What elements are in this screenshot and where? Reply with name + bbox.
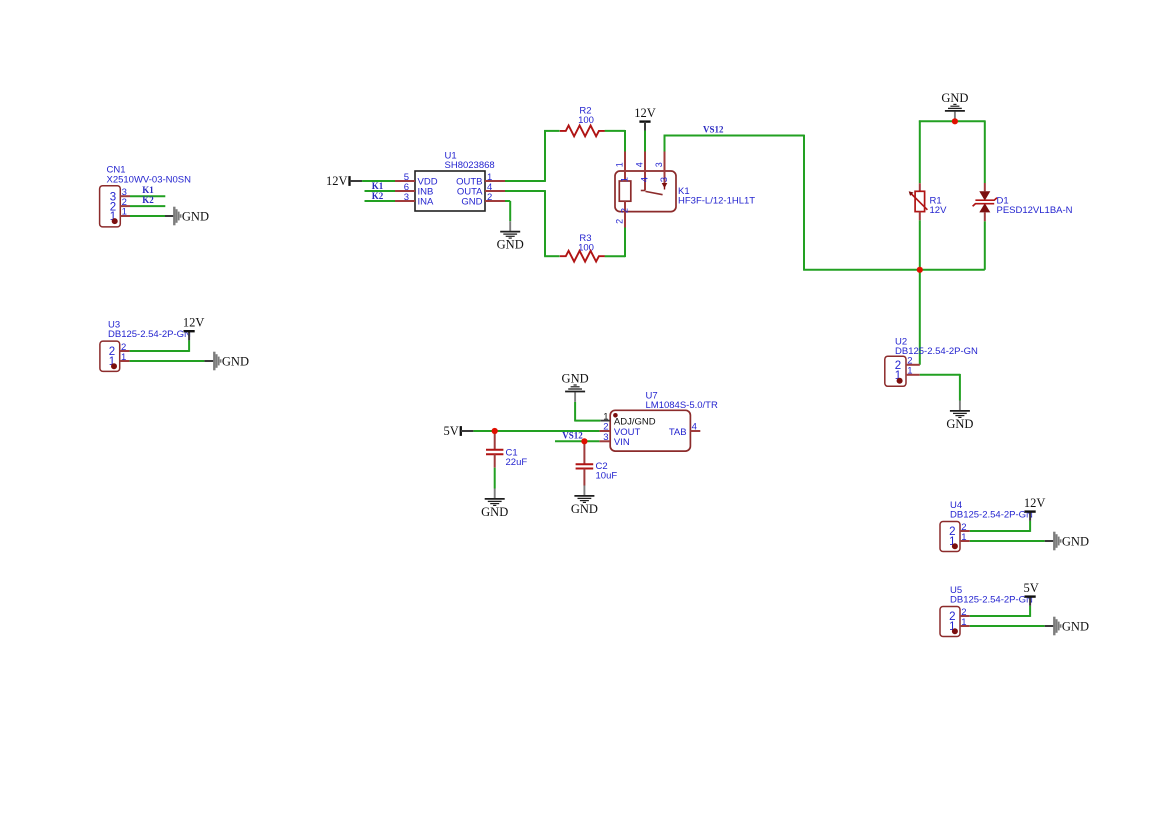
ground GND earth (U7 pin 1) xyxy=(562,371,589,402)
IC U1 pin numbers left xyxy=(404,172,409,203)
svg-text:3: 3 xyxy=(603,432,608,443)
connector U2 reference label xyxy=(895,337,978,358)
connector U4 pin 2 xyxy=(960,530,970,532)
resistor R3 xyxy=(560,251,605,262)
svg-text:3: 3 xyxy=(654,162,664,167)
connector U3 pin 1 xyxy=(120,360,130,362)
relay K1 switch blade xyxy=(645,191,662,194)
junction (5V rail / C1) xyxy=(492,428,498,434)
svg-text:10uF: 10uF xyxy=(596,471,618,482)
IC U1 pin 2 GND xyxy=(485,200,505,202)
connector U4 pin names xyxy=(949,526,955,548)
svg-text:GND: GND xyxy=(562,371,589,385)
regulator U7 pin 3 number xyxy=(603,432,608,443)
connector U2 pin names xyxy=(895,360,901,382)
connector U5 pin numbers xyxy=(961,607,966,628)
svg-text:1: 1 xyxy=(961,617,966,628)
svg-text:2: 2 xyxy=(615,219,625,224)
IC U1 reference label xyxy=(445,150,495,171)
ground GND flag (U3 pin 1) xyxy=(204,352,249,371)
connector CN1 pin 3 xyxy=(120,195,130,197)
regulator U7 pin 3 VIN xyxy=(599,440,610,442)
ground GND flag (U5 pin 1) xyxy=(1045,617,1089,636)
relay K1 pin 1 xyxy=(624,152,626,182)
regulator U7 pin 4 number xyxy=(692,422,697,433)
wire R1 bottom xyxy=(919,220,921,269)
svg-text:DB125-2.54-2P-GN: DB125-2.54-2P-GN xyxy=(950,509,1033,520)
svg-text:12V: 12V xyxy=(634,106,656,120)
regulator U7 pin-1 dot xyxy=(613,413,618,418)
svg-text:INA: INA xyxy=(418,197,435,208)
IC U1 pin 4 OUTA xyxy=(485,190,505,192)
connector U4 pin-1 dot xyxy=(952,543,958,549)
regulator U7 pin 4 name xyxy=(669,427,687,438)
regulator U7 body xyxy=(610,410,690,451)
regulator U7 pin 1 name xyxy=(614,416,656,427)
wire U1 GND pin 2 down xyxy=(505,201,510,221)
net label K1 (U1) xyxy=(372,181,384,191)
svg-text:SH8023868: SH8023868 xyxy=(445,160,495,171)
wire U5 pin 1 to GND xyxy=(970,625,1045,627)
resistor R2 xyxy=(560,125,605,136)
svg-text:1: 1 xyxy=(121,352,126,363)
wire VS12 down to U2 pin 2 xyxy=(919,270,921,365)
regulator U7 pin 3 name xyxy=(614,437,630,448)
connector U5 pin-1 dot xyxy=(952,628,958,634)
ground GND earth (U2 pin 1) xyxy=(946,401,973,431)
svg-text:HF3F-L/12-1HL1T: HF3F-L/12-1HL1T xyxy=(678,195,755,206)
connector U5 reference label xyxy=(950,585,1033,606)
capacitor C2 label xyxy=(596,461,618,482)
wire U7 pin 1 to GND xyxy=(575,402,600,422)
wire K1 from CN1 pin 3 xyxy=(130,195,165,197)
ground GND flag (CN1 pin 1) xyxy=(165,207,209,226)
svg-text:K2: K2 xyxy=(142,195,154,205)
relay K1 pin 3 xyxy=(662,152,668,190)
svg-text:ADJ/GND: ADJ/GND xyxy=(614,416,656,427)
svg-text:GND: GND xyxy=(571,502,598,516)
svg-text:K2: K2 xyxy=(372,191,384,201)
IC U1 pin 1 OUTB xyxy=(485,180,505,182)
svg-text:4: 4 xyxy=(692,422,697,433)
connector U3 body xyxy=(100,341,120,371)
svg-text:100: 100 xyxy=(578,115,594,126)
wire 5V rail xyxy=(473,430,599,432)
resistor R2 label xyxy=(578,106,594,127)
connector U2 pin 2 xyxy=(906,364,920,366)
svg-text:2: 2 xyxy=(619,208,630,213)
net label K2 (U1) xyxy=(372,191,384,201)
power 12V flag (U1 VDD) xyxy=(326,174,362,188)
wire U4 pin 2 to 12V xyxy=(970,521,1030,532)
svg-text:GND: GND xyxy=(222,355,249,369)
power 12V flag (K1 pin 4) xyxy=(634,106,656,131)
power 12V flag (U4) xyxy=(1024,496,1046,521)
capacitor C1 xyxy=(486,431,503,468)
wire 12V to U1 VDD xyxy=(362,180,395,182)
wire R3 to K1 pin 2 xyxy=(605,228,625,258)
connector U3 pin names xyxy=(109,346,115,368)
TVS diode D1 xyxy=(973,183,997,221)
wire U3 pin 1 to GND xyxy=(130,360,205,362)
svg-text:22uF: 22uF xyxy=(506,457,528,468)
connector CN1 reference label xyxy=(107,165,192,186)
relay K1 body xyxy=(615,171,676,212)
net label VS12 (relay) xyxy=(703,124,724,134)
IC U1 pin numbers right xyxy=(487,172,492,203)
svg-text:GND: GND xyxy=(946,417,973,431)
IC U1 pin 6 INB xyxy=(395,190,415,192)
connector U2 pin 1 xyxy=(906,374,920,376)
regulator U7 pin 2 VOUT xyxy=(599,430,610,432)
IC U1 body xyxy=(415,171,485,211)
power 5V flag (U5) xyxy=(1023,581,1038,606)
wire U2 pin 1 to GND xyxy=(920,374,960,401)
wire D1 bottom xyxy=(984,221,986,269)
regulator U7 pin 4 TAB xyxy=(690,430,700,432)
net label VS12 (U7) xyxy=(562,431,583,441)
IC U1 pin 3 INA xyxy=(395,200,415,202)
relay K1 pin 2 xyxy=(624,201,626,227)
connector CN1 pin names xyxy=(110,191,116,223)
svg-text:GND: GND xyxy=(1062,535,1089,549)
wire VS12 from K1 pin 3 xyxy=(664,135,985,270)
svg-text:GND: GND xyxy=(1062,620,1089,634)
svg-text:PESD12VL1BA-N: PESD12VL1BA-N xyxy=(997,205,1073,216)
junction (VS12 / C2) xyxy=(581,438,587,444)
wire K2 from CN1 pin 2 xyxy=(130,205,165,207)
regulator U7 reference label xyxy=(646,390,718,411)
relay K1 reference label xyxy=(678,186,755,207)
svg-text:1: 1 xyxy=(907,366,912,377)
svg-text:VS12: VS12 xyxy=(562,431,583,441)
relay K1 pin names inside xyxy=(619,177,670,213)
varistor R1 xyxy=(909,183,928,220)
svg-text:1: 1 xyxy=(619,177,630,182)
svg-text:DB125-2.54-2P-GN: DB125-2.54-2P-GN xyxy=(950,595,1033,606)
varistor R1 label xyxy=(930,195,948,216)
junction (VS12 / R1 column) xyxy=(917,267,923,273)
power 5V flag (U7 VOUT rail) xyxy=(444,424,474,438)
svg-text:12V: 12V xyxy=(1024,496,1046,510)
connector U3 reference label xyxy=(108,319,191,340)
svg-text:2: 2 xyxy=(487,192,492,203)
IC U1 pin names xyxy=(418,177,484,208)
wire 12V to K1 pin 4 xyxy=(644,131,646,152)
ground GND earth (C2) xyxy=(571,486,598,516)
wire U1 OUTB to R2 xyxy=(505,130,560,182)
relay K1 pin numbers outside xyxy=(615,162,665,224)
svg-text:K1: K1 xyxy=(372,181,384,191)
svg-text:1: 1 xyxy=(603,411,608,422)
svg-text:3: 3 xyxy=(404,192,409,203)
wire top rail xyxy=(919,120,985,183)
junction (top GND rail) xyxy=(952,118,958,124)
connector U5 pin names xyxy=(949,611,955,633)
svg-text:1: 1 xyxy=(961,532,966,543)
svg-text:1: 1 xyxy=(615,162,625,167)
svg-text:GND: GND xyxy=(461,197,482,208)
IC U1 pin 5 VDD xyxy=(395,180,415,182)
svg-text:VS12: VS12 xyxy=(703,124,724,134)
connector U3 pin-1 dot xyxy=(111,363,117,369)
relay K1 coil xyxy=(619,181,631,201)
wire U1 OUTA to R3 xyxy=(505,190,560,256)
connector CN1 pin 2 xyxy=(120,205,130,207)
wire U4 pin 1 to GND xyxy=(970,540,1045,542)
wire R2 to K1 pin 1 xyxy=(605,130,625,152)
net label K1 (CN1) xyxy=(142,185,154,195)
power 12V flag (U3) xyxy=(183,316,205,341)
TVS diode D1 label xyxy=(997,195,1073,216)
connector U5 pin 1 xyxy=(960,625,970,627)
connector U4 body xyxy=(940,522,960,552)
connector U2 body xyxy=(885,356,906,386)
svg-text:12V: 12V xyxy=(183,316,205,330)
svg-text:K1: K1 xyxy=(142,185,154,195)
regulator U7 pin 2 name xyxy=(614,427,641,438)
svg-text:X2510WV-03-N0SN: X2510WV-03-N0SN xyxy=(107,175,192,186)
relay K1 pin 4 xyxy=(641,152,645,191)
ground GND earth (C1) xyxy=(481,489,508,519)
connector U5 pin 2 xyxy=(960,615,970,617)
svg-text:GND: GND xyxy=(497,238,524,252)
connector CN1 pin-1 dot xyxy=(112,218,118,224)
svg-text:LM1084S-5.0/TR: LM1084S-5.0/TR xyxy=(646,400,718,411)
svg-text:1: 1 xyxy=(122,207,127,218)
svg-text:5V: 5V xyxy=(1023,581,1038,595)
svg-text:VIN: VIN xyxy=(614,437,630,448)
wire U5 pin 2 to 5V xyxy=(970,606,1030,617)
connector CN1 pin numbers xyxy=(122,187,127,218)
net label K2 (CN1) xyxy=(142,195,154,205)
connector U4 pin 1 xyxy=(960,540,970,542)
svg-text:TAB: TAB xyxy=(669,427,687,438)
connector U5 body xyxy=(940,607,960,637)
ground GND earth (top rail) xyxy=(941,91,968,122)
resistor R3 label xyxy=(578,233,594,254)
connector U4 reference label xyxy=(950,500,1033,521)
connector CN1 body xyxy=(100,186,121,227)
wire C1 to GND xyxy=(494,468,496,489)
regulator U7 pin 1 number xyxy=(603,411,608,422)
capacitor C2 xyxy=(576,441,594,485)
connector U4 pin numbers xyxy=(961,522,966,543)
svg-text:12V: 12V xyxy=(326,174,348,188)
wire K1 to U1 INB xyxy=(365,190,396,192)
wire GND from CN1 pin 1 xyxy=(130,215,165,217)
svg-text:5V: 5V xyxy=(444,424,459,438)
connector CN1 pin 1 xyxy=(120,215,130,217)
svg-text:GND: GND xyxy=(941,91,968,105)
svg-text:DB125-2.54-2P-GN: DB125-2.54-2P-GN xyxy=(108,329,191,340)
svg-text:12V: 12V xyxy=(930,205,948,216)
connector U3 pin numbers xyxy=(121,342,126,363)
regulator U7 pin 1 ADJ/GND xyxy=(600,420,610,422)
svg-text:GND: GND xyxy=(182,210,209,224)
svg-text:GND: GND xyxy=(481,505,508,519)
connector U2 pin-1 dot xyxy=(897,378,903,384)
wire U3 pin 2 to 12V xyxy=(130,340,190,352)
svg-text:4: 4 xyxy=(635,162,645,167)
ground GND flag (U4 pin 1) xyxy=(1045,532,1089,551)
connector U2 pin numbers xyxy=(907,356,912,377)
connector U3 pin 2 xyxy=(120,350,130,352)
wire K2 to U1 INA xyxy=(365,200,396,202)
ground GND earth (U1 pin 2) xyxy=(497,221,524,251)
svg-text:4: 4 xyxy=(639,177,650,182)
wire VS12 to U7 VIN xyxy=(555,440,599,442)
capacitor C1 label xyxy=(506,447,528,468)
regulator U7 pin 2 number xyxy=(603,422,608,433)
svg-text:3: 3 xyxy=(659,177,670,182)
